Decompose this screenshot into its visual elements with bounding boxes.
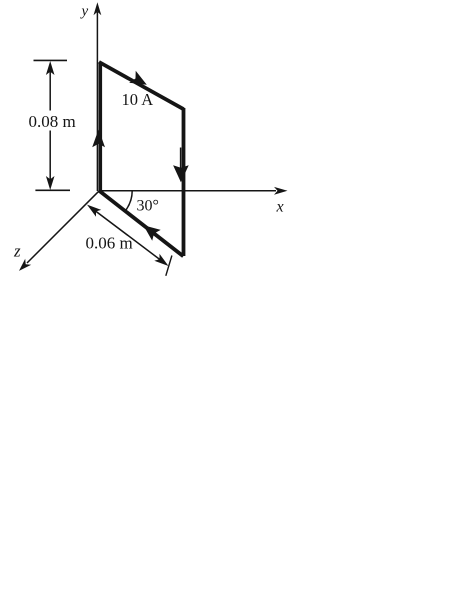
current arrow on right side (downward) with shaft xyxy=(173,148,189,183)
y-axis xyxy=(94,2,102,191)
x-axis xyxy=(99,187,288,195)
dimension 0.06 m: extension tick at lower right xyxy=(166,256,172,276)
current arrow on bottom side (up-left) xyxy=(143,225,160,241)
z-axis xyxy=(19,191,99,271)
svg-text:z: z xyxy=(13,242,21,261)
loop right side wire xyxy=(182,108,186,256)
svg-text:y: y xyxy=(80,4,89,20)
svg-text:0.08 m: 0.08 m xyxy=(29,112,76,131)
svg-text:x: x xyxy=(276,199,284,216)
current arrow on top side (down-right) xyxy=(129,71,147,85)
loop left side wire xyxy=(99,62,103,191)
dimension 0.08 m: line lower segment with down arrow xyxy=(46,131,55,191)
dimension 0.08 m: top tick xyxy=(34,59,68,61)
dimension 0.08 m: line upper segment with up arrow xyxy=(46,61,55,111)
svg-text:30°: 30° xyxy=(137,198,159,215)
angle arc 30 degrees xyxy=(125,191,132,211)
current arrow on left side (upward) xyxy=(92,129,105,147)
loop top side wire xyxy=(99,62,184,109)
dimension 0.06 m: slanted line with two arrows xyxy=(87,205,169,266)
svg-text:10 A: 10 A xyxy=(122,90,154,109)
loop bottom side wire xyxy=(99,191,183,256)
dimension 0.08 m: bottom tick xyxy=(35,189,70,191)
svg-text:0.06 m: 0.06 m xyxy=(86,234,133,253)
